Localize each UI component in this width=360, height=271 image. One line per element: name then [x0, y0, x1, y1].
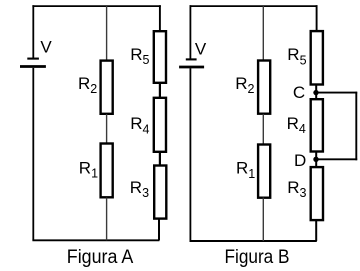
wire: Figura A right branch segment R4-R3	[159, 152, 161, 166]
wire: Figura B left rail lower (battery to bottom)	[189, 68, 191, 241]
wire: Figura A middle branch bottom segment	[106, 198, 108, 241]
wire: bypass C to right (top segment)	[316, 92, 357, 94]
wire: Figura A middle branch top segment	[106, 6, 108, 60]
wire: bypass D to right (bottom segment)	[316, 158, 357, 160]
wire: Figura A top rail	[32, 5, 160, 7]
resistor R3 (Figura A)	[154, 166, 166, 219]
node D junction dot	[313, 157, 318, 162]
battery V (Figura B) short plate	[186, 58, 197, 60]
resistor R4 (Figura B)	[311, 99, 323, 151]
wire: Figura A left rail lower (battery to bottom)	[32, 68, 34, 240]
wire: Figura B right branch bottom segment	[315, 220, 317, 241]
wire: Figura B segment node D to R3	[315, 159, 317, 167]
wire: Figura B right branch top segment	[316, 5, 318, 31]
resistor R5 (Figura B)	[311, 31, 323, 84]
svg-text:V: V	[40, 37, 52, 56]
wire: Figura A right branch top segment	[159, 5, 161, 31]
resistor R4 (Figura A)	[154, 98, 166, 152]
wire: Figura B segment R4 to node D	[315, 152, 317, 160]
resistor R1 (Figura B)	[258, 145, 270, 198]
wire: Figura A bottom rail	[32, 239, 159, 241]
wire: Figura A middle branch mid segment	[106, 114, 108, 143]
resistor R2 (Figura A)	[101, 61, 113, 114]
wire: bypass right vertical segment	[355, 92, 357, 161]
wire: Figura B middle branch top segment	[262, 6, 264, 60]
svg-text:Figura B: Figura B	[225, 247, 290, 268]
wire: Figura A right branch bottom segment	[158, 219, 160, 241]
wire: Figura B segment node C to R4	[315, 93, 317, 100]
svg-text:Figura A: Figura A	[67, 247, 134, 268]
svg-text:D: D	[294, 151, 306, 170]
wire: Figura B middle branch bottom segment	[262, 198, 264, 242]
battery V (Figura A) long plate	[20, 65, 46, 68]
resistor R1 (Figura A)	[101, 144, 113, 198]
wire: Figura A right branch segment R5-R4	[159, 83, 161, 98]
node C junction dot	[313, 90, 318, 95]
resistor R2 (Figura B)	[258, 61, 270, 114]
battery V (Figura A) short plate	[27, 58, 39, 60]
wire: Figura B segment R5 to node C	[315, 85, 317, 93]
wire: Figura B bottom rail	[190, 240, 317, 242]
wire: Figura B top rail	[190, 5, 318, 7]
resistor R3 (Figura B)	[311, 167, 323, 220]
wire: Figura B left rail upper (to battery)	[189, 5, 191, 59]
resistor R5 (Figura A)	[154, 31, 166, 83]
wire: Figura A left rail upper (to battery)	[32, 5, 34, 58]
battery V (Figura B) long plate	[179, 66, 204, 69]
wire: Figura B middle branch mid segment	[262, 114, 264, 144]
svg-text:C: C	[293, 83, 305, 102]
svg-text:V: V	[195, 40, 207, 59]
